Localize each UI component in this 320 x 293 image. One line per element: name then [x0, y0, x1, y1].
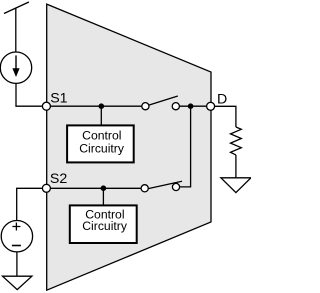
wire — [235, 155, 237, 178]
svg-text:D: D — [217, 92, 227, 108]
node D — [207, 102, 215, 110]
junction — [99, 103, 105, 109]
ground — [3, 276, 32, 289]
wire — [50, 187, 141, 189]
supply rail — [4, 2, 29, 14]
switch SW2 — [141, 181, 182, 192]
wire — [15, 8, 17, 52]
junction — [188, 103, 194, 109]
svg-text:S1: S1 — [50, 91, 67, 107]
node S1 — [42, 102, 50, 110]
junction — [101, 185, 107, 191]
svg-text:Control: Control — [82, 128, 121, 142]
wire — [50, 105, 141, 107]
voltage source V1 — [1, 221, 32, 252]
wire — [215, 106, 236, 127]
control circuitry U1 — [67, 125, 134, 162]
wire — [17, 188, 43, 220]
svg-text:S2: S2 — [50, 171, 67, 187]
resistor R1 — [231, 127, 242, 155]
wire — [16, 252, 18, 276]
wire — [180, 106, 191, 187]
ground — [221, 178, 251, 193]
mux body — [47, 4, 211, 290]
wire — [16, 83, 43, 106]
svg-text:Circuitry: Circuitry — [82, 219, 128, 233]
wire — [102, 188, 104, 205]
control circuitry U2 — [70, 205, 137, 243]
wire — [179, 105, 206, 107]
current source I1 — [0, 52, 31, 83]
svg-text:Circuitry: Circuitry — [79, 141, 125, 155]
node S2 — [42, 184, 50, 192]
switch SW1 — [142, 96, 180, 110]
wire — [100, 106, 102, 125]
